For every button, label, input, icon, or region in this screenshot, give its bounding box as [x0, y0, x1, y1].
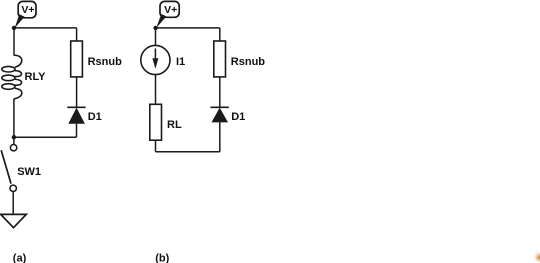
node V+ junction dot (circuit a) — [12, 26, 16, 30]
wire right vertical into Rsnub (circuit a) — [76, 28, 78, 42]
svg-text:(b): (b) — [155, 252, 169, 263]
svg-text:D1: D1 — [88, 111, 102, 123]
wire junction to switch (circuit a) — [13, 137, 15, 144]
svg-text:I1: I1 — [176, 56, 185, 68]
power flag V+ (circuit b) — [156, 1, 179, 28]
wire bottom to diode (circuit b) — [219, 122, 221, 151]
wire from Rsnub to diode (circuit a) — [76, 77, 78, 107]
svg-text:SW1: SW1 — [17, 166, 41, 178]
svg-text:(a): (a) — [13, 252, 27, 263]
resistor Rsnub (circuit b) — [214, 41, 226, 77]
inductor RLY — [2, 55, 22, 99]
wire Rsnub top (circuit b) — [219, 28, 221, 42]
node V+ junction dot (circuit b) — [153, 26, 157, 30]
wire switch to ground (circuit a) — [12, 192, 14, 215]
wire node to current source (circuit b) — [155, 28, 157, 46]
wire Rsnub to diode bar (circuit b) — [219, 77, 221, 107]
decorative orange blob bottom-right corner — [534, 250, 540, 263]
diode D1 (circuit b) — [211, 107, 229, 122]
resistor RL — [150, 104, 162, 140]
wire from diode to bottom (circuit a) — [76, 124, 78, 138]
junction dot (circuit a) — [12, 135, 16, 139]
svg-text:D1: D1 — [231, 111, 245, 123]
svg-text:RL: RL — [167, 119, 182, 131]
wire left vertical from node to coil (circuit a) — [13, 28, 15, 56]
svg-text:V+: V+ — [164, 4, 177, 16]
wire bottom horizontal (circuit a) — [14, 136, 77, 138]
wire top horizontal (circuit a) — [14, 27, 77, 29]
wire bottom horizontal (circuit b) — [156, 151, 220, 153]
power flag V+ (circuit a) — [15, 1, 36, 28]
wire top horizontal (circuit b) — [156, 27, 220, 29]
ground — [1, 214, 27, 227]
wire current source to RL (circuit b) — [155, 75, 157, 105]
wire RL to bottom (circuit b) — [155, 140, 157, 152]
svg-text:Rsnub: Rsnub — [231, 56, 265, 68]
switch SW1 — [1, 145, 17, 192]
resistor Rsnub (circuit a) — [71, 41, 83, 77]
wire left vertical from coil to junction (circuit a) — [13, 99, 15, 137]
svg-text:V+: V+ — [21, 4, 34, 16]
svg-text:Rsnub: Rsnub — [88, 56, 123, 68]
current source I1 — [141, 45, 170, 74]
diode D1 (circuit a) — [67, 107, 85, 123]
svg-text:RLY: RLY — [25, 71, 47, 83]
